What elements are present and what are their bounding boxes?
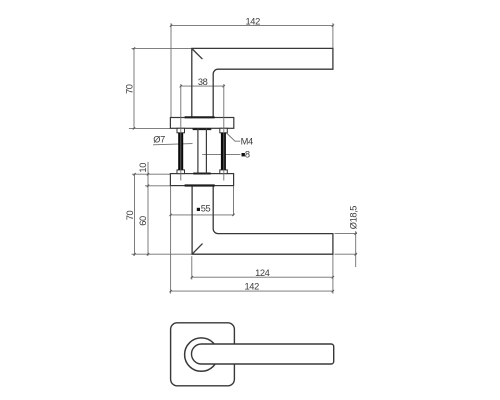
svg-text:8: 8 — [245, 150, 250, 160]
svg-text:142: 142 — [245, 281, 260, 291]
svg-text:Ø18,5: Ø18,5 — [349, 206, 359, 230]
svg-text:70: 70 — [125, 84, 135, 94]
svg-text:60: 60 — [138, 216, 148, 226]
svg-text:124: 124 — [255, 268, 270, 278]
svg-text:38: 38 — [198, 77, 208, 87]
svg-text:Ø7: Ø7 — [153, 134, 165, 144]
svg-text:M4: M4 — [241, 136, 253, 146]
svg-text:55: 55 — [201, 203, 211, 213]
svg-text:70: 70 — [125, 211, 135, 221]
svg-text:142: 142 — [246, 17, 261, 27]
svg-text:10: 10 — [138, 163, 148, 173]
